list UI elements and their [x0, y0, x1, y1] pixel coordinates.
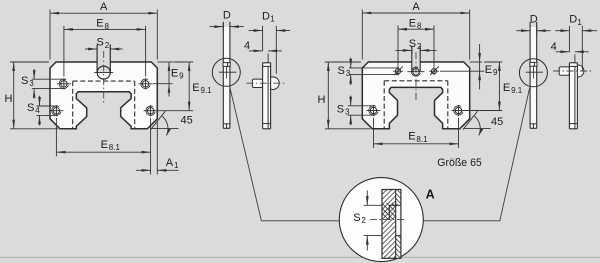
svg-text:3: 3: [29, 79, 34, 88]
right lower-right tapped hole: [452, 105, 466, 116]
dimension E9.1 (left): [158, 62, 213, 111]
svg-text:A: A: [100, 1, 108, 13]
left plate outline with rail slot cutout: [50, 62, 157, 129]
dimension 4 (left strip): [244, 40, 282, 63]
right upper-left small tapped hole S3: [393, 66, 403, 75]
dimension E8.1 (left): [56, 118, 150, 156]
svg-text:S: S: [21, 75, 28, 87]
svg-text:A: A: [166, 157, 174, 169]
leader from left balloon to detail circle: [230, 86, 340, 221]
svg-text:E: E: [408, 131, 415, 143]
svg-text:8: 8: [105, 22, 110, 31]
left D1 strip side view: [252, 63, 279, 129]
left central counterbore slot (gray throat): [97, 45, 110, 73]
dimension E9 (right): [440, 44, 498, 89]
dimension S4 (left): [27, 96, 58, 126]
svg-text:E: E: [101, 139, 108, 151]
svg-text:9.1: 9.1: [201, 86, 213, 95]
svg-text:45: 45: [491, 116, 503, 128]
right D1 horizontal centerline: [553, 70, 591, 72]
dimension S2 (detail): [353, 191, 382, 251]
right plate outline with rail slot cutout: [362, 62, 469, 129]
svg-text:E: E: [96, 18, 103, 30]
left upper-right tapped hole: [139, 78, 153, 89]
dimension D (left strip): [210, 10, 244, 32]
right D strip clamp piece: [530, 62, 537, 66]
dimension D1 (left strip): [249, 10, 291, 74]
svg-text:D: D: [569, 14, 577, 26]
left lower-right tapped hole: [144, 105, 158, 116]
svg-text:45: 45: [181, 115, 193, 127]
svg-text:S: S: [353, 212, 360, 224]
svg-text:Größe 65: Größe 65: [437, 157, 482, 169]
svg-text:4: 4: [35, 106, 40, 115]
right D strip side view: [530, 22, 537, 128]
dimension S3 lower (right): [337, 96, 375, 126]
svg-text:2: 2: [105, 41, 110, 50]
dimension D (right strip): [516, 14, 550, 35]
svg-text:8: 8: [417, 22, 422, 31]
right hidden rail outline (dashed): [384, 81, 448, 129]
svg-text:D: D: [530, 14, 538, 26]
45 degree chamfer dimension (left): [151, 111, 193, 135]
dimension S3 (left): [21, 69, 66, 99]
dimension E9 (left): [153, 62, 184, 97]
left vertical centerline: [103, 51, 105, 105]
dimension 4 (right strip): [551, 41, 589, 63]
svg-text:E: E: [171, 68, 178, 80]
right central counterbore slot (gray throat): [412, 46, 420, 72]
left central hole: [94, 66, 113, 79]
svg-text:E: E: [192, 82, 199, 94]
right detail balloon circle: [519, 59, 547, 87]
svg-text:2: 2: [361, 216, 366, 225]
dimension E8.1 (right): [374, 118, 459, 148]
svg-text:A: A: [412, 1, 420, 13]
left D strip clamp piece: [223, 63, 230, 67]
right D1 strip side view: [559, 63, 584, 129]
left D strip hole crosshair: [219, 66, 236, 78]
svg-text:S: S: [409, 38, 416, 50]
right vertical centerline: [415, 52, 417, 101]
svg-text:H: H: [5, 93, 13, 105]
right lower-left tapped hole S3: [367, 105, 381, 116]
dimension E8 (left): [64, 18, 146, 77]
svg-text:9.1: 9.1: [511, 86, 523, 95]
dimension S2 (right): [396, 38, 437, 54]
svg-text:4: 4: [244, 40, 250, 52]
svg-text:8.1: 8.1: [416, 135, 428, 144]
svg-text:S: S: [337, 104, 344, 116]
svg-text:S: S: [97, 37, 104, 49]
svg-text:H: H: [318, 94, 326, 106]
left hidden rail outline (dashed): [73, 81, 135, 129]
left D strip side view: [223, 22, 230, 128]
dimension A (right): [362, 1, 469, 60]
svg-text:9: 9: [179, 72, 184, 81]
detail strip cross-section with hatching: [313, 190, 471, 259]
svg-text:S: S: [27, 102, 34, 114]
left D1 horizontal centerline: [246, 82, 284, 84]
detail centerline: [370, 219, 407, 221]
svg-text:8.1: 8.1: [109, 143, 121, 152]
dimension S3 upper (right): [338, 58, 400, 85]
45 degree chamfer dimension (right): [463, 111, 503, 135]
svg-text:1: 1: [270, 15, 275, 24]
svg-text:D: D: [262, 10, 270, 22]
svg-text:E: E: [503, 82, 510, 94]
svg-text:E: E: [485, 64, 492, 76]
dimension E8 (right): [398, 17, 434, 67]
svg-text:1: 1: [174, 161, 179, 170]
svg-text:1: 1: [577, 18, 582, 27]
svg-text:D: D: [223, 10, 231, 22]
right central hole: [408, 67, 425, 76]
detail view A circle: [339, 178, 423, 262]
dimension S2 (left): [85, 37, 123, 53]
left lower-left tapped hole S4: [49, 105, 63, 116]
dimension H (left): [5, 62, 59, 129]
svg-text:9: 9: [493, 68, 498, 77]
dimension A1 (left): [136, 118, 179, 175]
dimension A (left): [50, 1, 157, 60]
left upper-left tapped hole S3: [57, 78, 71, 89]
dimension E9.1 (right): [463, 62, 523, 111]
svg-text:2: 2: [417, 42, 422, 51]
svg-text:4: 4: [551, 41, 557, 53]
right upper-right small tapped hole: [429, 66, 439, 75]
svg-text:S: S: [338, 65, 345, 77]
left detail balloon circle: [212, 58, 240, 86]
dimension D1 (right strip): [555, 14, 597, 71]
svg-text:3: 3: [346, 69, 351, 78]
bottom rule line: [0, 256, 600, 258]
dimension H (right): [318, 62, 371, 129]
svg-text:3: 3: [345, 108, 350, 117]
leader from right balloon to detail circle: [423, 86, 530, 220]
svg-text:A: A: [426, 188, 435, 202]
svg-text:E: E: [409, 17, 416, 29]
right D strip hole crosshair: [526, 66, 543, 78]
